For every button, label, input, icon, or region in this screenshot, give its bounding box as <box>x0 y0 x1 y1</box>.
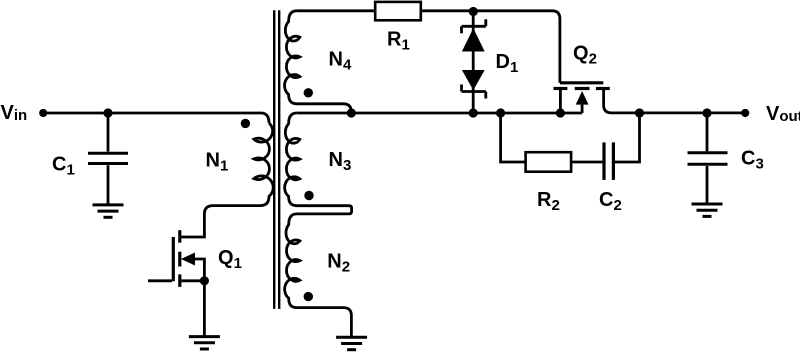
resistor R2 <box>526 152 572 172</box>
phase dot N2 <box>304 292 313 301</box>
svg-text:Q1: Q1 <box>218 247 242 272</box>
diode D1 triangles <box>181 28 589 265</box>
phase dot N3 <box>304 191 313 200</box>
node D1 top <box>469 7 478 16</box>
svg-text:C2: C2 <box>599 189 622 214</box>
node Vout terminal <box>741 109 749 117</box>
wire: R1 to Q2 gate <box>421 11 560 83</box>
node N4 bottom / rail <box>347 108 356 117</box>
arrow Q1 body diode <box>181 253 195 266</box>
wire: C2 up to Vout rail <box>615 113 640 162</box>
diode pair D1 <box>472 11 475 113</box>
wire: R2 to C2 <box>571 161 602 164</box>
inductor N3 and N2 windings (series tapped) <box>285 113 352 337</box>
wire: input rail Vin to N1 top <box>43 113 269 123</box>
phase dot N1 <box>241 119 250 128</box>
node Q2 source <box>556 108 565 117</box>
svg-text:Vout: Vout <box>766 103 800 125</box>
wire: right rail (N3 top / D1 / R2 / Q2 source) <box>297 112 582 115</box>
phase dot N4 <box>304 88 313 97</box>
node C1 tap <box>103 108 112 117</box>
svg-text:R1: R1 <box>387 28 410 53</box>
transformer core <box>273 10 275 309</box>
node R2 tap <box>496 108 505 117</box>
svg-text:Q2: Q2 <box>573 43 597 68</box>
node Vout junction <box>635 108 644 117</box>
svg-text:D1: D1 <box>496 51 519 76</box>
wire: rail tap down to R2 <box>501 113 526 162</box>
node Q1 source <box>200 276 209 285</box>
svg-text:C1: C1 <box>52 153 75 178</box>
node C3 tap <box>702 108 711 117</box>
arrow Q2 body diode <box>576 91 589 105</box>
capacitor C1 <box>107 113 110 152</box>
svg-text:N1: N1 <box>206 150 229 175</box>
svg-text:N3: N3 <box>329 149 352 174</box>
capacitor C2 <box>602 142 605 180</box>
inductor N4 winding <box>285 11 352 113</box>
transistor Q2 <box>560 81 603 84</box>
transistor Q1 <box>148 279 172 282</box>
svg-text:C3: C3 <box>741 147 764 172</box>
node D1 bottom <box>469 108 478 117</box>
ground (N2) <box>336 337 367 349</box>
svg-text:N2: N2 <box>327 251 350 276</box>
ground (C3) <box>692 204 723 216</box>
ground (Q1) <box>189 337 220 349</box>
capacitor C3 <box>706 113 709 151</box>
inductor N1 primary winding <box>182 123 274 237</box>
svg-text:N4: N4 <box>329 48 352 73</box>
node Vin terminal <box>39 109 47 117</box>
wire: top rail to R1 <box>297 9 376 12</box>
svg-text:Vin: Vin <box>1 102 28 124</box>
resistor R1 <box>375 2 421 20</box>
ground (C1) <box>93 205 124 217</box>
svg-text:R2: R2 <box>537 189 560 214</box>
